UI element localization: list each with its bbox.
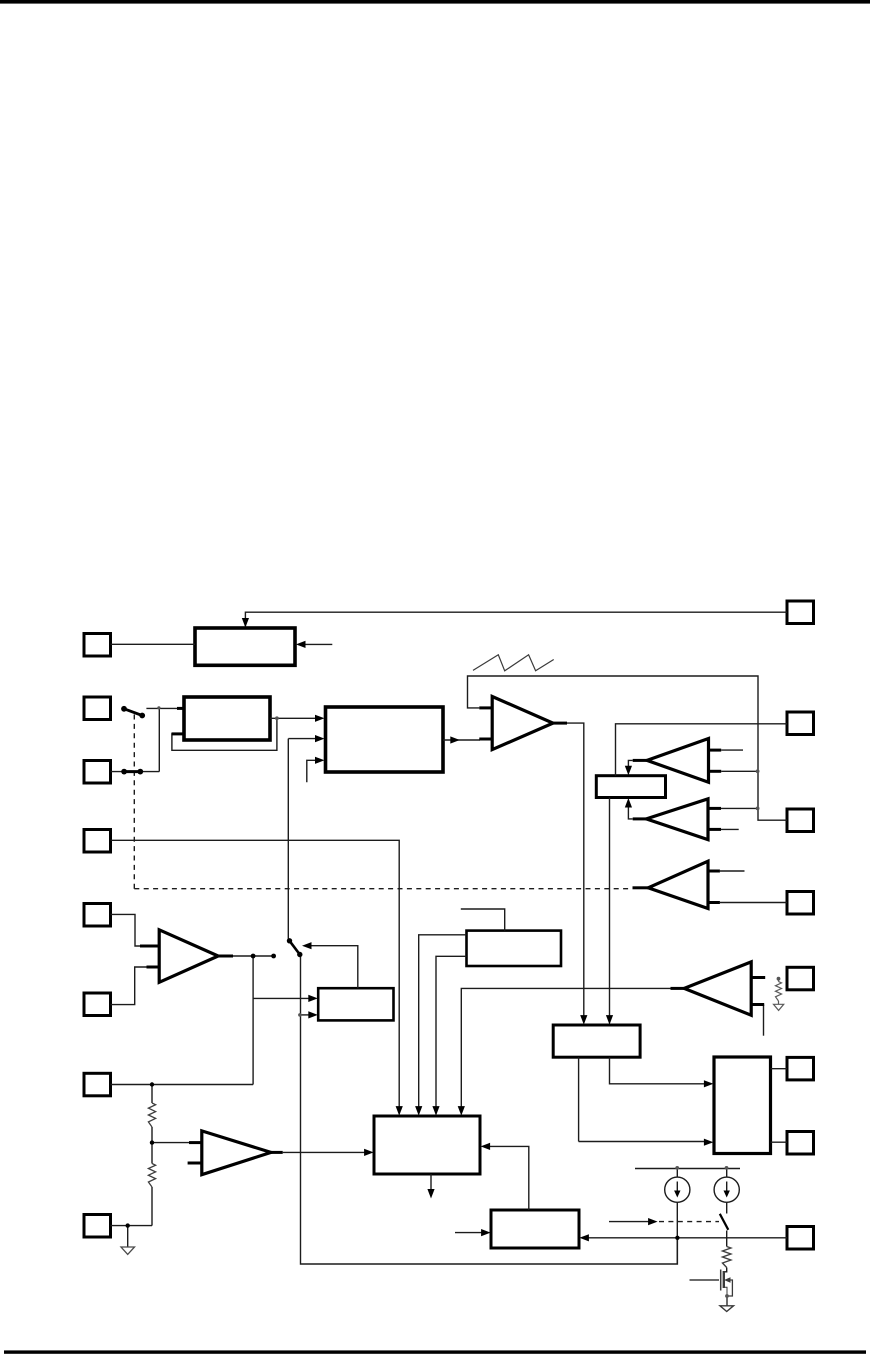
sawtooth waveform	[473, 655, 554, 671]
stub T4 input A	[709, 749, 722, 752]
arrow on control wire	[648, 1218, 658, 1225]
pin box P16 (right, row8)	[787, 1227, 814, 1250]
wire B8 bottom dangling arrow	[430, 1174, 432, 1192]
comparator T3 (lower comparator)	[202, 1131, 271, 1175]
junction dot divider tap	[150, 1140, 154, 1144]
pin box P3 (left, row3)	[84, 761, 111, 784]
wire ramp line into T1 top input	[468, 676, 788, 820]
arrow into B8 top 3	[432, 1106, 439, 1116]
arrow into B8 right	[481, 1143, 491, 1150]
junction dot sense node	[675, 1236, 679, 1240]
wire ground drop at P8	[127, 1226, 129, 1247]
current source CS1	[665, 1177, 690, 1202]
wire R3 top from dot	[778, 979, 780, 982]
pin box P11 (right, row3)	[787, 809, 814, 832]
wire switch fixed contact to B2	[146, 707, 179, 709]
resistor R4 sense	[723, 1247, 731, 1268]
arrow into B8 left	[364, 1149, 374, 1156]
wire B3 output to T1	[443, 739, 480, 741]
wire T6 output to P12	[720, 902, 787, 904]
wire CS2 stem top	[726, 1169, 728, 1178]
buffer T4 (left-pointing, upper)	[647, 739, 709, 783]
stub T4 output	[633, 759, 647, 762]
dashed wire switch gang vertical	[133, 715, 135, 889]
wire chopper output down and feedback to node	[301, 955, 678, 1265]
wire P10 to B4 top	[616, 724, 788, 776]
MOSFET Q1	[690, 1270, 733, 1306]
ground symbol at P8	[121, 1247, 135, 1254]
junction dot T5 input A	[756, 807, 760, 811]
wire B3 input3 hook	[307, 760, 319, 782]
stub T6 output	[633, 886, 649, 889]
wire oscillator output to B3	[270, 717, 319, 719]
pin box P9 (right, row1)	[787, 601, 814, 624]
wire B6 hook to chopper arrow	[307, 946, 358, 989]
block B4 flip-flop	[596, 776, 665, 798]
block B9 uvlo	[491, 1210, 579, 1248]
junction dot T2 output a	[251, 954, 256, 959]
stub T1 output	[553, 722, 567, 725]
wire MOSFET drain from resistor	[724, 1268, 727, 1272]
arrow into B3 input1	[315, 715, 325, 722]
op-amp T2 (error amplifier)	[159, 930, 218, 983]
wire divider top segment	[151, 1085, 153, 1104]
stub T7 output	[671, 987, 685, 990]
arrow into B7 top left	[580, 1015, 587, 1025]
wire B10 to P14	[771, 1068, 788, 1070]
wire supply rail	[635, 1168, 740, 1170]
arrow into B10 lower	[704, 1139, 714, 1146]
stub T3 minus input	[188, 1162, 202, 1165]
stub T3 output	[271, 1151, 283, 1154]
pin box P7 (left, row7)	[84, 1073, 111, 1096]
wire T4 apex to B4 top	[628, 760, 632, 769]
wire switch to sense node	[726, 1231, 728, 1247]
pin box P1 (left, row1)	[84, 634, 111, 657]
stub T6 input B	[708, 901, 720, 904]
pin box P15 (right, row7)	[787, 1132, 814, 1155]
stub T5 input B	[708, 828, 721, 831]
wire B9 top to B8 right	[486, 1146, 529, 1210]
wire divider mid segment	[151, 1127, 153, 1164]
wire B7 bottom right to B10	[610, 1057, 709, 1084]
junction dot switch pin2 b	[139, 713, 145, 719]
arrow into B1 top	[242, 618, 249, 628]
arrow into B6 upper	[308, 995, 318, 1002]
pin box P8 (left, row8)	[84, 1215, 111, 1238]
wire R3 bottom to ground	[778, 1001, 780, 1004]
wire T6 input A stub	[720, 870, 745, 872]
junction dot rail CS1	[675, 1166, 679, 1170]
block B1 regulator	[195, 628, 295, 665]
wire T7 input B down dangling	[763, 1005, 765, 1036]
stub T5 input A	[708, 807, 721, 810]
junction dot chopper b	[297, 952, 302, 957]
wire divider bottom segment	[151, 1187, 153, 1226]
resistor R3 at T7 output	[776, 982, 782, 1002]
wire stub into B1 right	[298, 643, 332, 645]
wire T3 output to B8	[283, 1151, 368, 1153]
junction dot T4 input B	[756, 769, 760, 773]
switch blade current-source	[720, 1214, 729, 1230]
arrow into B7 top right	[606, 1015, 613, 1025]
stub T5 output	[633, 817, 647, 820]
wire T2 output junction down	[252, 956, 254, 1085]
stub T1 minus input	[479, 738, 492, 741]
arrow into B4 bottom	[625, 798, 632, 808]
junction dot R3 top	[777, 977, 781, 981]
arrow B8 bottom dangling	[427, 1189, 434, 1199]
wire sense line B9 to P16	[585, 1237, 787, 1239]
wire control solid part to switch	[609, 1221, 650, 1223]
wire B7 bottom left to B10	[578, 1057, 580, 1141]
MOSFET body arrow	[724, 1277, 731, 1283]
pin box P10 (right, row2)	[787, 712, 814, 735]
wire B10 to P15	[771, 1141, 788, 1143]
wire T2 output to chopper contact	[233, 955, 274, 957]
ground symbol at MOSFET	[720, 1306, 734, 1312]
stub T2 plus input	[140, 945, 159, 948]
wire T5 apex to B4 bottom	[628, 804, 632, 819]
switch blade chopper	[290, 941, 300, 955]
pin box P4 (left, row4)	[84, 830, 111, 853]
arrow into B10 upper	[704, 1080, 714, 1087]
block B2 oscillator	[184, 697, 270, 740]
junction dot divider bottom	[126, 1223, 130, 1227]
wire P7 to divider	[111, 1084, 254, 1086]
stub B2 feedback input	[172, 732, 185, 735]
buffer T6 (left-pointing, lower)	[648, 861, 708, 908]
arrow into B3 input3	[315, 757, 325, 764]
wire B5 output1 to B8	[419, 935, 467, 1110]
pin box P5 (left, row5)	[84, 904, 111, 927]
resistor R1 divider upper	[148, 1103, 155, 1127]
block B7 gate logic	[553, 1025, 640, 1057]
arrow into B6 lower	[308, 1011, 318, 1018]
stub T7 input B	[751, 1003, 764, 1006]
arrow on B3 output wire	[450, 736, 460, 743]
stub B2 input	[177, 707, 184, 710]
junction dot T2 output b	[271, 954, 276, 959]
stub T2 output	[218, 955, 233, 958]
junction dot switch pin3 b	[137, 769, 143, 775]
wire T1 output down to B7	[567, 723, 584, 1019]
junction dot node x159	[157, 706, 160, 709]
junction dot switch pin3 a	[121, 769, 127, 775]
wire P3 to node	[111, 771, 160, 773]
wire P4 to B8 (long)	[111, 840, 400, 1110]
wire into B10 lower	[579, 1141, 708, 1143]
wire CS1 stem top	[676, 1169, 678, 1178]
arrow into B3 input2	[315, 735, 325, 742]
junction dot B6 branch	[298, 1013, 302, 1017]
wire T5 input A to node	[721, 807, 758, 809]
stub T7 input A	[751, 976, 765, 979]
junction dot oscillator output	[275, 716, 279, 720]
switch blade pin2 (open)	[124, 709, 142, 716]
wire B5 top hook	[461, 909, 505, 931]
pin box P13 (right, row5)	[787, 967, 814, 990]
pin box P12 (right, row4)	[787, 892, 814, 915]
dashed wire control to bottom switch	[659, 1221, 719, 1223]
wire branch to B6 lower input	[301, 1014, 313, 1016]
arrow into B8 top 2	[415, 1106, 422, 1116]
stub T2 minus input	[147, 966, 160, 969]
wire P8 to divider bottom	[111, 1225, 153, 1227]
wire T4 input A stub	[721, 749, 743, 751]
wire B4 bottom down to B7	[609, 798, 611, 1020]
wire P6 to T2 minus	[111, 967, 149, 1005]
arrow into B9 left	[481, 1229, 491, 1236]
wire T4 input B to node	[721, 770, 757, 772]
block B8 control logic	[374, 1116, 480, 1174]
block B5 one-shot	[467, 931, 562, 966]
wire B9 left dangling input	[455, 1232, 485, 1234]
wire B5 output2 to B8	[436, 956, 467, 1110]
wire T5 input B stub	[721, 828, 739, 830]
stub T6 input A	[708, 870, 720, 873]
junction dot chopper a	[287, 938, 292, 943]
wire oscillator feedback loop	[172, 718, 277, 750]
wire divider tap to T3 plus	[152, 1142, 192, 1144]
wire T7 output to B8	[461, 988, 670, 1110]
block B10 output driver	[714, 1057, 771, 1154]
wire CS2 bottom to switch	[726, 1202, 728, 1213]
wire P1 to B1	[111, 643, 196, 645]
pin box P14 (right, row6)	[787, 1057, 814, 1080]
arrow into B1 right	[296, 641, 306, 648]
stub T1 plus input	[479, 706, 492, 709]
block B3 logic	[326, 707, 444, 772]
pin box P6 (left, row6)	[84, 993, 111, 1016]
junction dot switch pin2 a	[121, 706, 127, 712]
wire B3 input2 from chopper vertical	[288, 739, 319, 941]
pin box P2 (left, row2)	[84, 697, 111, 720]
wire top feedback to P9	[245, 612, 787, 627]
footer rule	[4, 1350, 866, 1353]
arrow into B8 top 1	[396, 1106, 403, 1116]
arrow into B9 right	[579, 1234, 589, 1241]
block B6 pwm latch	[318, 988, 393, 1020]
amp T7 (current sense, left-pointing)	[684, 962, 751, 1015]
buffer T5 (left-pointing, middle)	[646, 799, 708, 840]
junction dot divider top	[150, 1082, 154, 1086]
stub T3 plus input	[189, 1141, 202, 1144]
stub T4 input B	[709, 770, 722, 773]
resistor R2 divider lower	[148, 1164, 155, 1188]
arrow into B8 top 4	[458, 1106, 465, 1116]
header rule	[0, 0, 870, 4]
wire CS1 bottom to sense node	[676, 1202, 678, 1264]
arrow into B4 top	[625, 766, 632, 776]
wire node vertical x159	[158, 708, 160, 771]
dashed wire shutdown horizontal to T6	[134, 888, 629, 890]
comparator T1 (PWM comparator)	[492, 697, 553, 750]
arrow toward chopper switch	[302, 942, 312, 949]
junction dot rail CS2	[725, 1166, 729, 1170]
current source CS2	[714, 1177, 739, 1202]
junction dot MOSFET source	[725, 1294, 729, 1298]
wire P5 to T2 plus	[111, 914, 145, 946]
switch blade pins2-3 closed (thick)	[124, 770, 140, 773]
ground symbol at R3	[774, 1004, 784, 1010]
wire junction to B6 upper input	[253, 997, 312, 999]
